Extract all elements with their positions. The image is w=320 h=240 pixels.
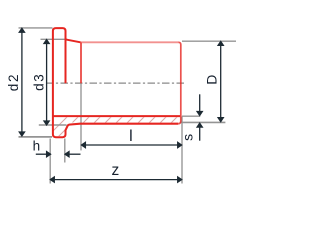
- ext line l left (cone edge, below axis): [80, 83, 82, 150]
- svg-text:h: h: [33, 138, 41, 153]
- bore line (inner wall, section): [53, 115, 180, 117]
- svg-text:d3: d3: [31, 72, 46, 90]
- svg-text:s: s: [180, 134, 196, 141]
- centerline pipe axis (dash-dot): [46, 82, 185, 84]
- ext line s bore level: [182, 115, 200, 117]
- dim line D: [220, 44, 222, 119]
- svg-text:z: z: [112, 162, 120, 179]
- pipe top outline (thin light red): [81, 41, 179, 43]
- ext line l and z right (pipe end): [181, 117, 183, 184]
- ext line D top: [182, 40, 236, 42]
- dim h left arrow (outside): [36, 153, 47, 155]
- ext line d2 bottom: [19, 136, 53, 138]
- svg-text:D: D: [204, 75, 220, 85]
- collar (flange bead): left face + top + right face upper half: [53, 28, 66, 137]
- ext line h right: [64, 139, 66, 163]
- ext line D / s bottom: [180, 121, 225, 123]
- svg-text:d2: d2: [6, 73, 21, 91]
- dim h right arrow (outside): [69, 153, 81, 155]
- dim line d2: [21, 31, 23, 134]
- cone edge line (top half only): [80, 43, 82, 84]
- dim s lower arrow: [199, 127, 201, 141]
- ext line d3 bottom: [39, 124, 67, 126]
- top outline: cone slant: [66, 39, 81, 42]
- ext line d2 top: [19, 27, 53, 29]
- dim s upper arrow: [199, 94, 201, 112]
- bottom outline: chamfer + cone + pipe outer: [66, 124, 179, 132]
- dim line z: [54, 179, 179, 181]
- dim line l: [85, 144, 179, 146]
- pipe end face (right): [178, 42, 181, 123]
- gray extension lines: [19, 28, 237, 184]
- dim line d3: [46, 43, 48, 123]
- ext line d3 top: [41, 38, 65, 40]
- dimension lines and arrows (dark): [19, 28, 223, 182]
- ext line h left and z left: [49, 139, 51, 184]
- svg-text:l: l: [129, 128, 133, 145]
- section hatch (pipe wall + collar, bottom half): [40, 108, 208, 144]
